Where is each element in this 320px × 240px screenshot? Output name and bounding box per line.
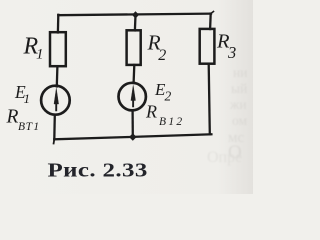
- arrow of E1: [54, 88, 59, 111]
- svg-text:R: R: [145, 102, 157, 122]
- resistor R3: [200, 29, 215, 64]
- corner tail bottom-left: [53, 139, 56, 143]
- arrow of E2: [131, 85, 136, 107]
- label E2: [154, 80, 172, 103]
- svg-text:Опре: Опре: [207, 149, 242, 166]
- node bottom junction: [129, 133, 137, 140]
- wire R3 to bottom: [209, 64, 210, 135]
- wire R2 to E2: [132, 65, 135, 83]
- svg-text:2: 2: [158, 47, 166, 64]
- corner tick top-right: [211, 12, 214, 14]
- label R_vt1: [6, 107, 41, 133]
- svg-text:ни: ни: [233, 65, 247, 80]
- wire top horizontal: [58, 14, 211, 16]
- svg-text:Рис. 2.33: Рис. 2.33: [48, 159, 148, 181]
- label R1: [23, 34, 44, 63]
- wire middle branch top: [134, 15, 137, 31]
- source E1: [41, 86, 70, 115]
- wire E2 to bottom: [131, 111, 133, 138]
- paper background: [0, 0, 253, 194]
- wire right branch top: [209, 14, 212, 29]
- source E2: [119, 83, 146, 111]
- wire R1 to E1: [56, 66, 59, 86]
- svg-text:3: 3: [227, 43, 236, 62]
- label E1: [14, 82, 30, 106]
- label R2: [147, 31, 167, 65]
- wire left branch top: [57, 15, 60, 33]
- resistor R1: [50, 32, 66, 66]
- resistor R2: [127, 30, 141, 65]
- wire bottom horizontal: [54, 134, 211, 139]
- wire E1 to bottom: [53, 115, 56, 140]
- svg-text:R: R: [6, 107, 19, 128]
- node top junction: [132, 11, 139, 18]
- svg-text:2: 2: [165, 89, 172, 104]
- svg-text:1: 1: [24, 91, 31, 106]
- svg-text:жи: жи: [229, 97, 247, 112]
- svg-text:1: 1: [36, 47, 44, 63]
- svg-text:В12: В12: [159, 116, 184, 128]
- svg-text:ый: ый: [231, 81, 247, 96]
- label R3: [216, 31, 236, 63]
- faint bleed-through text right edge: [207, 65, 247, 166]
- svg-text:ВТ1: ВТ1: [18, 121, 40, 133]
- label R_v12: [145, 102, 184, 128]
- svg-text:ом: ом: [232, 113, 247, 128]
